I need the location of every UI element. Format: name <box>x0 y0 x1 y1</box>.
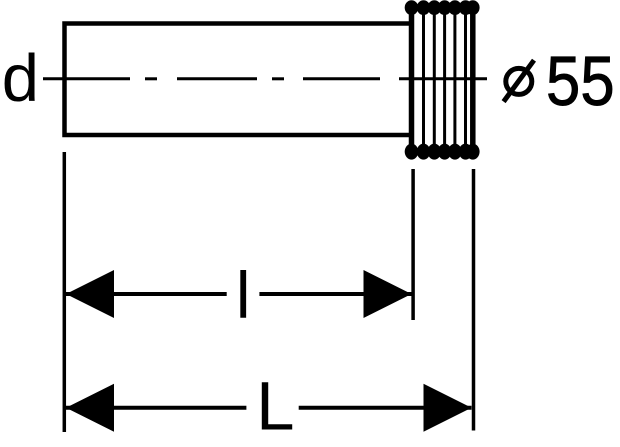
centerline (dash-dot axis) <box>43 77 487 80</box>
threaded collar top thread crests <box>405 0 480 15</box>
svg-text:55: 55 <box>546 41 615 120</box>
dimension line l <box>66 292 412 296</box>
arrowhead L left <box>66 384 114 432</box>
label ø (diameter symbol) <box>504 60 534 101</box>
svg-text:d: d <box>2 41 39 116</box>
extension line right (L) <box>472 169 476 431</box>
svg-text:L: L <box>256 368 294 445</box>
threaded collar left edge <box>409 6 415 154</box>
threaded collar right edge <box>470 6 476 154</box>
pipe body outline <box>65 24 413 136</box>
arrowhead L right <box>424 384 472 432</box>
extension line left <box>63 152 67 432</box>
svg-text:l: l <box>236 258 251 332</box>
arrowhead l left <box>66 270 114 318</box>
extension line middle (l) <box>411 169 415 320</box>
threaded collar bottom thread crests <box>405 144 480 160</box>
arrowhead l right <box>364 270 412 318</box>
dimension line L <box>66 406 472 410</box>
threaded collar thread lines <box>424 12 466 148</box>
